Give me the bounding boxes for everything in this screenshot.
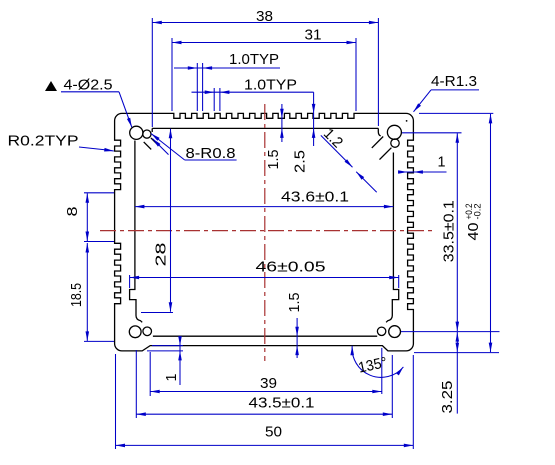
dim 40±0.2 (overall height) (419, 112, 493, 114)
svg-text:1.0TYP: 1.0TYP (244, 76, 297, 93)
dim 31 (serrated span) (171, 38, 173, 111)
svg-text:46±0.05: 46±0.05 (256, 258, 326, 275)
dim 1.2 (45deg slot width) (321, 135, 353, 167)
dim 1.5 (bottom wall thickness) (296, 318, 298, 358)
svg-text:18.5: 18.5 (68, 283, 85, 307)
screw boss top-left (keyhole) (151, 128, 153, 132)
svg-text:8-R0.8: 8-R0.8 (186, 145, 236, 162)
dim 39 (between chamfers) (149, 352, 151, 396)
dim 28 (vertical interior) (141, 312, 173, 314)
dim 18.5 (left lower section) (84, 340, 114, 342)
right wall inner face and PCB slot groove (386, 153, 399, 323)
dim 2.5 (top wall thickness) (313, 92, 315, 146)
svg-text:28: 28 (152, 243, 169, 267)
svg-text:33.5±0.1: 33.5±0.1 (441, 200, 458, 262)
svg-text:1.5: 1.5 (265, 150, 282, 170)
svg-text:2.5: 2.5 (291, 150, 308, 173)
dim 1 (right fin depth) (398, 171, 447, 173)
svg-text:38: 38 (256, 8, 273, 25)
svg-text:1.5: 1.5 (286, 293, 303, 313)
inner ceiling of top wall (152, 127, 378, 129)
svg-text:31: 31 (305, 27, 322, 44)
dim 33.5±0.1 (boss centers) (402, 132, 462, 134)
svg-text:3.25: 3.25 (439, 381, 456, 414)
bottom wall inner surface (153, 335, 377, 337)
dim 43.5±0.1 (135, 350, 137, 418)
svg-text:39: 39 (260, 375, 277, 392)
dim 3.25 (boss center to bottom) (456, 332, 458, 414)
svg-text:1: 1 (163, 374, 180, 382)
svg-text:40: 40 (465, 223, 482, 241)
svg-text:1: 1 (438, 153, 446, 170)
dim 135° (chamfer angle) (381, 348, 383, 394)
dim 8 (left plain section) (84, 192, 114, 194)
horizontal centerline (100, 230, 435, 232)
svg-text:8: 8 (64, 207, 81, 217)
svg-text:-0.2: -0.2 (473, 204, 483, 220)
dim 43.6±0.1 (135, 206, 394, 208)
dim 1.0TYP (tooth width) (213, 88, 215, 111)
left wall inner face and PCB slot groove (130, 141, 143, 323)
corner radius center mark (406, 120, 408, 122)
extrusion profile outer outline (115, 113, 414, 351)
screw boss top-right (keyhole with 45deg slot) (378, 128, 380, 136)
note 4-Ø2.5 with datum triangle and leader (45, 81, 57, 91)
svg-text:4-R1.3: 4-R1.3 (431, 73, 477, 90)
dim 1 (foot step) (152, 345, 183, 347)
dim 1.5 (top wall below grooves) (281, 104, 283, 142)
vertical centerline (264, 104, 266, 361)
svg-text:50: 50 (265, 424, 282, 441)
dim 38 (top, between ceiling steps) (151, 18, 153, 127)
dim 46±0.05 (129, 275, 131, 288)
svg-text:1.0TYP: 1.0TYP (229, 51, 279, 68)
dim 50 (overall width) (115, 354, 117, 449)
svg-text:R0.2TYP: R0.2TYP (8, 132, 79, 149)
screw boss bottom-left (keyhole) (129, 326, 141, 338)
dim 1.0TYP (groove width) (196, 63, 198, 111)
screw boss bottom-right (keyhole) (389, 326, 401, 338)
svg-text:43.6±0.1: 43.6±0.1 (281, 189, 349, 206)
svg-text:43.5±0.1: 43.5±0.1 (249, 394, 315, 411)
svg-text:4-Ø2.5: 4-Ø2.5 (64, 76, 113, 93)
